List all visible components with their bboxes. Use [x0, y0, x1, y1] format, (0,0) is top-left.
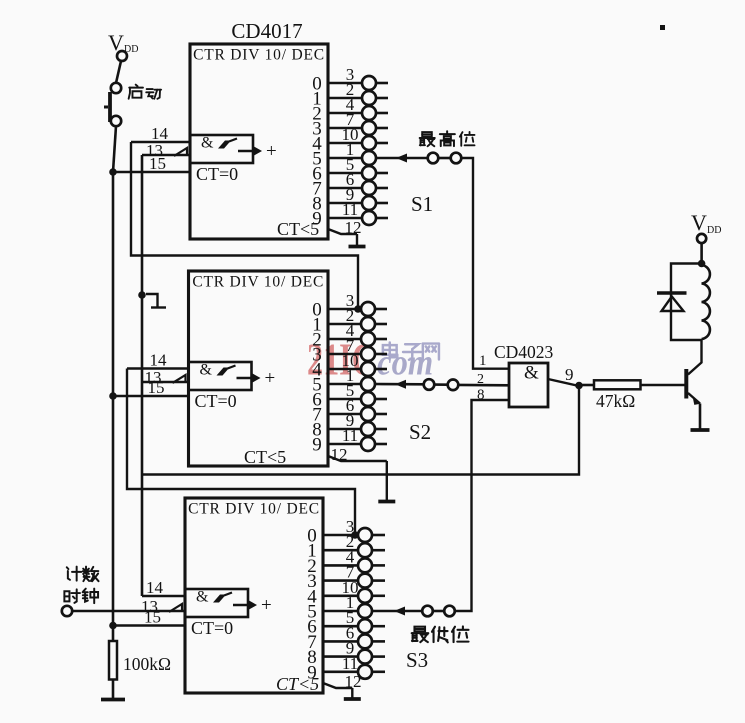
pulse waveform symbol: [146, 294, 166, 308]
U3-bot pin13 wedge: [169, 604, 182, 612]
svg-text:CT<5: CT<5: [277, 219, 319, 239]
svg-text:100kΩ: 100kΩ: [123, 654, 171, 674]
label 100kOhm: [123, 654, 171, 674]
IC U3-bot CD4017 box: [185, 498, 323, 693]
label S1: [411, 192, 433, 216]
U2-mid header text CTR DIV 10/DEC: [192, 274, 324, 291]
switch S1 contact b: [451, 153, 462, 164]
svg-text:&: &: [200, 362, 213, 379]
U1-top pin13 wedge: [174, 148, 187, 156]
U3-bot ground: [344, 697, 361, 701]
resistor R1 47k box: [594, 380, 641, 389]
watermark 21IC red text: [307, 334, 375, 385]
U2-mid pin15 label: [148, 378, 165, 397]
U3-bot plus sign: [261, 595, 272, 616]
U4 ampersand: [524, 363, 539, 384]
wire Vdd to relay node: [700, 243, 703, 264]
wire S1 link: [439, 157, 451, 160]
svg-text:+: +: [266, 141, 277, 162]
U3-bot pin15 label: [144, 608, 161, 627]
U3-bot output 3 pin 7: [307, 563, 385, 593]
switch S3 contact b: [444, 606, 455, 617]
U1-top inner ampersand: [201, 135, 214, 152]
U2-mid output 9 pin 11: [312, 426, 387, 456]
U2-mid output 2 pin 4: [312, 321, 387, 351]
svg-text:CT=0: CT=0: [191, 618, 233, 638]
U2 pin14 wire: [127, 367, 189, 370]
label S2: [409, 420, 431, 444]
svg-text:CD4017: CD4017: [231, 19, 302, 43]
ground R2: [101, 698, 125, 702]
U1 pin13 wire: [142, 154, 190, 157]
wire NAND out to R1: [579, 384, 594, 387]
node C pulse junction: [138, 291, 146, 299]
U3-bot output 8 pin 9: [307, 639, 385, 669]
wire Q1 emitter down: [699, 404, 702, 429]
svg-text:CTR DIV 10/ DEC: CTR DIV 10/ DEC: [188, 501, 320, 518]
U1-top ground: [349, 245, 366, 249]
U1-top pin15 label: [149, 154, 166, 173]
wire A vertical (button line down left side): [112, 172, 115, 626]
wire button down to node A1: [113, 126, 116, 172]
U1-top output 9 pin 11: [312, 200, 388, 230]
U1-top inner clock block rect: [190, 135, 253, 163]
arrow S3 direction: [394, 607, 405, 616]
svg-text:&: &: [524, 363, 539, 384]
svg-text:CTR DIV 10/ DEC: CTR DIV 10/ DEC: [193, 47, 325, 64]
svg-text:1: 1: [479, 353, 487, 369]
U3 pin13 wire (clock): [72, 610, 185, 613]
U2-mid pin12 label: [331, 445, 348, 464]
U3-bot pin12 wire: [323, 683, 352, 699]
diode D1 triangle: [662, 297, 684, 312]
node NAND output junction: [575, 382, 583, 390]
wire R1 to Q1 base: [641, 384, 685, 387]
U3-bot pin13 label: [141, 597, 158, 616]
label shizhong (clock): [64, 589, 98, 604]
transistor Q1 base bar: [684, 369, 688, 399]
node A2 junction: [109, 392, 117, 400]
wire S1 from U1 output5: [376, 157, 429, 160]
label qidong (start): [129, 85, 161, 99]
U1-top pin14 label: [151, 124, 169, 143]
svg-text:S2: S2: [409, 420, 431, 444]
wire S2 from U2 output5: [375, 383, 424, 386]
relay coil K1: [702, 265, 710, 339]
U3-bot inner edge flag: [213, 593, 232, 603]
arrow S1 direction: [396, 154, 407, 163]
node D junction on U3 row0: [351, 531, 359, 539]
U2-mid inner edge flag: [217, 366, 236, 376]
watermark dianzi-wang chars: [383, 343, 439, 360]
wire A to R2: [112, 626, 115, 642]
Vdd right terminal circle: [697, 234, 706, 243]
svg-text:14: 14: [146, 578, 164, 597]
U1-top output 3 pin 7: [312, 110, 388, 140]
switch S3 contact a: [422, 606, 433, 617]
svg-text:&: &: [196, 589, 209, 606]
watermark .com script: [369, 342, 433, 383]
wire C: feedback vertical U1.13-U2.13-U3.14: [141, 155, 144, 596]
svg-text:.com: .com: [369, 342, 433, 383]
U2-mid CT=0 text: [195, 391, 237, 411]
U1-top output 5 pin 1: [312, 140, 376, 170]
U2-mid output 4 pin 10: [312, 351, 387, 381]
U2-mid ground: [378, 500, 395, 504]
U2-mid output 6 pin 5: [312, 381, 387, 411]
U1-top header text CTR DIV 10/DEC: [193, 47, 325, 64]
node A3 junction: [109, 622, 117, 630]
Vdd terminal (top-left) label: [108, 30, 138, 55]
U3-bot inner ampersand: [196, 589, 209, 606]
wire S3 link: [433, 610, 445, 613]
wire D: U2 pin14 to U3 output0: [127, 369, 355, 536]
U3-bot output 2 pin 4: [307, 547, 385, 577]
U1-top output 1 pin 2: [312, 80, 388, 110]
svg-text:9: 9: [565, 365, 574, 384]
U4 output diagonal: [548, 379, 579, 386]
label S3: [406, 648, 428, 672]
U2-mid output 0 pin 3: [312, 291, 387, 321]
push-button actuator bar: [104, 92, 110, 122]
U2-mid pin12 wire: [328, 456, 387, 502]
U2 pin13 wire: [142, 381, 189, 384]
svg-text:CT<5: CT<5: [276, 674, 319, 694]
node B junction on U2 row0: [354, 305, 362, 313]
U3 pin15 wire: [113, 624, 185, 627]
U1-top output 2 pin 4: [312, 95, 388, 125]
svg-text:V: V: [691, 210, 707, 235]
U3-bot CT=0 text: [191, 618, 233, 638]
svg-text:9: 9: [312, 435, 322, 456]
U1-top output 8 pin 9: [312, 185, 388, 215]
svg-text:DD: DD: [707, 225, 721, 236]
Vdd right label: [691, 210, 721, 236]
svg-text:S3: S3: [406, 648, 428, 672]
svg-text:CT<5: CT<5: [244, 447, 286, 467]
svg-text:+: +: [261, 595, 272, 616]
node relay top junction: [698, 260, 706, 268]
IC U1 title CD4017: [231, 19, 302, 43]
U2-mid inner clock block rect: [189, 362, 252, 390]
wire S3 from U3 output5: [372, 610, 423, 613]
svg-text:11: 11: [342, 200, 358, 219]
svg-text:&: &: [201, 135, 214, 152]
U1-top output 7 pin 6: [312, 170, 388, 200]
U3-bot output 4 pin 10: [307, 578, 385, 608]
label 47kOhm: [596, 391, 635, 411]
registration mark square: [660, 25, 665, 30]
wire S1 to NAND input1: [461, 158, 509, 369]
U4 pin2 label: [477, 372, 484, 387]
svg-text:CD4023: CD4023: [494, 342, 554, 362]
U3-bot CT&lt;5 text: [276, 674, 319, 694]
U2-mid output 3 pin 7: [312, 336, 387, 366]
U1-top pin12 label: [345, 218, 362, 237]
U4 pin1 label: [479, 353, 487, 369]
svg-text:47kΩ: 47kΩ: [596, 391, 635, 411]
push-button S start: circles: [111, 83, 121, 126]
U3-bot pin12 label: [345, 672, 362, 691]
clock input terminal: [62, 606, 72, 616]
label zuigaowei (highest digit): [420, 131, 475, 146]
node A1 junction: [109, 168, 117, 176]
U1-top pin12 wire: [328, 229, 357, 247]
wire B: U1 pin14 to U2 output0: [131, 142, 358, 309]
svg-text:2: 2: [477, 372, 484, 387]
U3-bot output 7 pin 6: [307, 623, 385, 653]
switch S2 contact a: [424, 379, 435, 390]
U3-bot inner clock block rect: [185, 589, 248, 617]
svg-text:15: 15: [149, 154, 166, 173]
svg-text:11: 11: [342, 654, 358, 673]
U3-bot output 9 pin 11: [307, 654, 385, 684]
U2-mid plus sign: [265, 368, 276, 389]
U1-top inner arrow out: [238, 147, 262, 156]
resistor R2 100k box: [109, 641, 117, 680]
U1-top pin13 label: [146, 141, 163, 160]
U1-top output 6 pin 5: [312, 155, 388, 185]
svg-text:11: 11: [342, 426, 358, 445]
IC U4 CD4023 box: [509, 363, 548, 407]
svg-text:+: +: [265, 368, 276, 389]
svg-text:CT=0: CT=0: [196, 164, 238, 184]
diode D1 cathode bar: [657, 291, 687, 295]
wire S3 to NAND input8: [455, 400, 510, 611]
svg-text:14: 14: [150, 351, 168, 370]
U4 pin8 label: [477, 387, 485, 403]
U3-bot output 0 pin 3: [307, 517, 385, 547]
transistor Q1 collector: [688, 339, 702, 375]
svg-text:8: 8: [477, 387, 485, 403]
svg-text:CTR DIV 10/ DEC: CTR DIV 10/ DEC: [192, 274, 324, 291]
U2-mid pin14 label: [150, 351, 168, 370]
U1-top output 4 pin 10: [312, 125, 388, 155]
switch S1 contact a: [428, 153, 439, 164]
U1-top output 0 pin 3: [312, 65, 388, 95]
U2-mid output 5 pin 1: [312, 366, 375, 396]
wire relay left branch: [671, 264, 702, 341]
U1-top CT=0 text: [196, 164, 238, 184]
U4 pin9 label: [565, 365, 574, 384]
IC U1-top CD4017 box: [190, 44, 328, 239]
Vdd terminal circle: [117, 51, 127, 61]
U2-mid pin13 wedge: [173, 375, 186, 383]
U2-mid pin13 label: [145, 368, 162, 387]
svg-text:S1: S1: [411, 192, 433, 216]
label jishu (count): [67, 567, 99, 582]
wire S2 link: [434, 383, 448, 386]
IC U4 label CD4023: [494, 342, 554, 362]
label zuidiwei (lowest digit): [412, 626, 469, 642]
wire R2 to ground: [112, 680, 115, 699]
U2 pin15 wire: [113, 395, 189, 398]
U2-mid inner ampersand: [200, 362, 213, 379]
wire S2 to NAND input2: [458, 384, 509, 387]
wire Vdd to button: [116, 61, 121, 83]
U3-bot output 5 pin 1: [307, 593, 372, 623]
ground Q1 emitter: [691, 428, 710, 432]
switch S2 contact b: [448, 380, 459, 391]
U3-bot pin14 label: [146, 578, 164, 597]
U3-bot inner arrow out: [233, 601, 257, 610]
U3-bot output 6 pin 5: [307, 608, 385, 638]
U1-top CT&lt;5 text: [277, 219, 319, 239]
wire feedback NAND output to C: [142, 385, 579, 475]
U2-mid inner arrow out: [237, 374, 261, 383]
U2-mid output 1 pin 2: [312, 306, 387, 336]
U2-mid output 8 pin 9: [312, 411, 387, 441]
U2-mid output 7 pin 6: [312, 396, 387, 426]
U2-mid CT&lt;5 text: [244, 447, 286, 467]
U3 pin14 wire: [142, 595, 185, 598]
IC U2-mid CD4017 box: [189, 271, 329, 466]
svg-text:CT=0: CT=0: [195, 391, 237, 411]
U1-top plus sign: [266, 141, 277, 162]
U1-top inner edge flag: [218, 139, 237, 149]
U3-bot output 1 pin 2: [307, 532, 385, 562]
arrow S2 direction: [395, 380, 406, 389]
U3-bot header text CTR DIV 10/DEC: [188, 501, 320, 518]
transistor Q1 emitter: [688, 393, 701, 405]
U1 pin15 wire: [113, 171, 190, 174]
U1 pin14 wire: [131, 141, 190, 144]
